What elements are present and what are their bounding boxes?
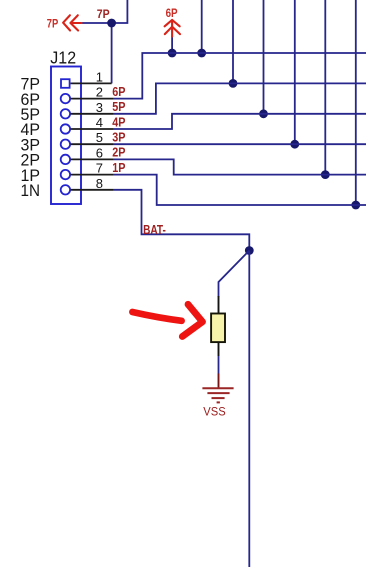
wire vertical bus 3 bbox=[263, 0, 265, 114]
svg-text:4: 4 bbox=[96, 115, 103, 130]
svg-text:6P: 6P bbox=[112, 85, 125, 99]
svg-text:7P: 7P bbox=[47, 16, 59, 30]
svg-text:8: 8 bbox=[96, 176, 103, 191]
svg-text:BAT-: BAT- bbox=[143, 222, 166, 237]
wire vertical bus 5 bbox=[324, 0, 326, 175]
wire net 6P from pin2 bbox=[113, 53, 366, 99]
pin 7 stub bbox=[71, 174, 113, 176]
pin 8 circle pad bbox=[61, 185, 70, 194]
svg-text:3P: 3P bbox=[112, 131, 125, 145]
svg-text:1: 1 bbox=[96, 69, 103, 84]
node junction 6P bus bbox=[197, 49, 206, 58]
svg-text:2P: 2P bbox=[112, 146, 125, 160]
ground VSS bar 3 bbox=[212, 397, 225, 399]
wire net 5P from pin3 bbox=[113, 83, 366, 113]
ground VSS bar 1 bbox=[202, 387, 233, 389]
pin 1 square pad bbox=[61, 79, 70, 88]
node junction 3P bus bbox=[290, 140, 299, 149]
wire 6P flag riser bbox=[171, 37, 173, 53]
wire pin1 riser to 7P bbox=[111, 23, 113, 83]
pin 6 circle pad bbox=[61, 155, 70, 164]
svg-text:1P: 1P bbox=[112, 161, 125, 175]
wire net 4P from pin4 bbox=[113, 114, 366, 129]
wire vertical bus 1 bbox=[201, 0, 203, 53]
resistor R body bbox=[211, 314, 225, 343]
pin 5 circle pad bbox=[61, 140, 70, 149]
annotation red arrow shaft bbox=[132, 312, 181, 321]
node junction 5P bus bbox=[229, 79, 238, 88]
resistor R bottom pin bbox=[218, 342, 220, 356]
pin 4 stub bbox=[71, 128, 113, 130]
pin 1 stub bbox=[71, 82, 112, 84]
wire vertical bus 4 bbox=[294, 0, 296, 144]
pin 8 stub bbox=[71, 189, 113, 191]
net flag 7P chevrons bbox=[63, 15, 81, 30]
pin 7 circle pad bbox=[61, 170, 70, 179]
ground VSS bar 4 bbox=[217, 401, 220, 403]
ground VSS bar 2 bbox=[207, 392, 229, 394]
pin 3 circle pad bbox=[61, 109, 70, 118]
wire vertical bus 2 bbox=[232, 0, 234, 83]
svg-text:7: 7 bbox=[96, 161, 103, 176]
ground VSS stem bbox=[218, 374, 220, 389]
svg-text:2: 2 bbox=[96, 85, 103, 100]
annotation red arrow head bbox=[182, 304, 202, 336]
resistor R top pin bbox=[218, 296, 220, 314]
node junction 4P bus bbox=[259, 109, 268, 118]
wire net 3P from pin5 bbox=[113, 143, 366, 145]
node junction 7P bbox=[107, 19, 116, 28]
wire net 1P from pin7 bbox=[113, 175, 366, 205]
pin 2 circle pad bbox=[61, 94, 70, 103]
node junction BAT- bbox=[245, 246, 254, 255]
pin 4 circle pad bbox=[61, 124, 70, 133]
pin 6 stub bbox=[71, 158, 113, 160]
svg-text:1N: 1N bbox=[21, 181, 41, 200]
wire net BAT- from pin8 bbox=[113, 190, 249, 251]
svg-text:4P: 4P bbox=[112, 115, 125, 129]
wire net 2P from pin6 bbox=[113, 159, 366, 174]
svg-text:VSS: VSS bbox=[203, 404, 225, 418]
svg-text:5: 5 bbox=[96, 130, 103, 145]
wire vertical bus 6 bbox=[355, 0, 357, 205]
pin 3 stub bbox=[71, 113, 113, 115]
svg-text:6: 6 bbox=[96, 145, 103, 160]
connector J12 body bbox=[51, 67, 81, 205]
node junction 2P bus bbox=[321, 170, 330, 179]
pin 2 stub bbox=[71, 98, 113, 100]
pin 5 stub bbox=[71, 143, 113, 145]
node junction 6P flag bbox=[168, 49, 177, 58]
svg-text:J12: J12 bbox=[50, 48, 76, 68]
wire 7P horizontal and top riser bbox=[82, 0, 127, 23]
svg-text:3: 3 bbox=[96, 100, 103, 115]
svg-text:7P: 7P bbox=[97, 7, 110, 21]
wire BAT- diagonal to resistor bbox=[219, 251, 250, 298]
net flag 6P chevrons bbox=[165, 20, 180, 37]
svg-text:6P: 6P bbox=[166, 6, 178, 20]
node junction 1P bus bbox=[351, 201, 360, 210]
svg-text:5P: 5P bbox=[112, 100, 125, 114]
wire BAT- long vertical bbox=[248, 251, 250, 568]
wire resistor to ground bbox=[218, 356, 220, 374]
